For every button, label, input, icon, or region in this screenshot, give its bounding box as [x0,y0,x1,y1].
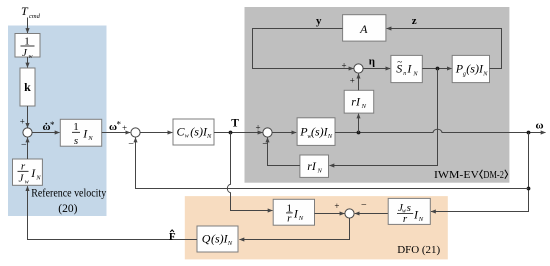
wire 1/r to junction S5 [315,213,345,215]
svg-text:−: − [21,140,27,151]
wire S1 to 1/s block [32,132,59,134]
block Sn tilde IN [391,55,422,82]
svg-text:N: N [317,168,323,175]
svg-text:w: w [29,54,33,60]
svg-text:k: k [24,80,31,94]
svg-text:N: N [87,135,93,142]
svg-text:N: N [412,70,418,77]
svg-text:+: + [350,76,355,86]
wire rIN lower to S3 [268,138,300,166]
wire Q output Fhat to r/Jw block [28,186,198,239]
svg-text:+: + [20,117,25,127]
wire y path A to S4 [253,29,354,69]
svg-text:N: N [482,70,488,77]
block Pg(s)IN [452,55,489,82]
svg-text:1: 1 [73,121,79,133]
summing junction S3 [263,128,272,137]
wire omega feedback long line to S2 [136,138,529,189]
node dot Sn output [436,67,440,71]
svg-text:Q: Q [202,231,211,245]
label T_cmd [21,4,41,20]
svg-text:+: + [256,123,261,133]
svg-text:r: r [403,213,408,225]
block Q(s)IN [197,226,238,252]
svg-text:~: ~ [397,57,402,67]
label IWM-EV DM-2 [434,169,508,181]
wire Sn node down to rIN lower [330,69,438,166]
wire r/Jw to S1 [27,138,29,159]
block r/Jw IN [13,159,43,185]
summing junction S5 [345,209,354,218]
region: Reference velocity (blue) [8,26,107,217]
wire Sn to Pg through node [422,68,451,70]
wire Jws/r to S5 [355,213,388,215]
svg-text:z: z [412,15,417,27]
svg-text:cmd: cmd [29,13,41,20]
block rIN lower [300,155,329,177]
svg-text:w: w [185,134,189,140]
wire z path Pg to A [387,29,502,69]
svg-text:N: N [35,174,41,181]
svg-text:+: + [122,123,127,133]
svg-text:+: + [334,201,339,211]
block Pw(s)IN [297,118,335,146]
wire k to junction S1 [27,106,29,128]
wire 1/Jw to k [27,57,29,68]
svg-text:N: N [298,215,304,222]
wire S5 down to Q block [240,218,350,239]
node dot omega branch [527,131,531,135]
svg-text:rI: rI [307,159,317,173]
block A [343,15,386,41]
svg-text:N: N [418,216,424,223]
wire Tcmd to 1/Jw [27,18,29,34]
svg-text:y: y [316,15,322,27]
svg-text:N: N [206,133,212,140]
svg-text:n: n [403,71,406,77]
wire omega feedback down right side to Jws/r [431,133,529,212]
svg-text:r: r [21,160,26,172]
wire node to rIN upper [358,114,360,133]
svg-text:*: * [50,120,55,130]
wire Cw to junction S3 through node T [214,132,262,134]
wire S3 to Pw block [272,132,296,134]
node dot on Pw output [357,131,361,135]
block k [20,68,35,106]
block 1/r IN [273,199,314,225]
node T dot [229,131,233,135]
block 1/s IN [60,119,101,147]
summing junction S1 [23,128,32,137]
wire rIN upper to junction S4 [358,74,360,91]
region: DFO (orange) [185,196,448,259]
svg-text:w: w [25,179,29,185]
svg-text:A: A [359,22,368,36]
svg-text:N: N [327,133,333,140]
block 1/Jw [15,34,40,61]
svg-text:(s)I: (s)I [311,125,329,139]
svg-text:ω: ω [536,120,544,132]
svg-text:T: T [231,118,239,130]
wire Pw output to omega with hop over vertical line [335,129,546,132]
svg-text:s: s [407,202,411,214]
block Jws/r IN [388,198,430,225]
wire 1/s to junction S2 [102,132,131,134]
svg-text:rI: rI [351,95,361,109]
summing junction S2 [131,128,140,137]
label omega-dot-star [43,120,56,133]
svg-text:T: T [21,4,29,18]
svg-text:−: − [128,139,134,150]
svg-text:Reference velocity: Reference velocity [31,186,106,200]
svg-text:(20): (20) [58,203,77,215]
svg-text:r: r [287,212,292,224]
block rIN upper [344,90,374,113]
block Cw(s)IN [173,119,214,145]
wire S2 to Cw block [140,132,172,134]
summing junction S4 [354,64,363,73]
svg-text:1: 1 [24,35,30,47]
svg-text:(s)I: (s)I [190,124,208,138]
svg-text:F: F [169,231,176,243]
svg-text:(s)I: (s)I [211,231,229,245]
svg-text:−: − [361,200,367,211]
svg-text:(s)I: (s)I [466,62,484,76]
svg-text:N: N [361,103,367,110]
svg-text:DFO (21): DFO (21) [397,244,440,256]
svg-text:IWM-EV: IWM-EV [434,169,479,181]
svg-text:*: * [117,119,122,129]
node dot feedback split [527,187,531,191]
svg-text:N: N [227,240,233,247]
svg-text:s: s [74,135,78,147]
svg-text:η: η [369,56,375,68]
label omega-star [109,119,122,133]
wire S4 to Sn block [363,68,390,70]
region: IWM-EV plant (gray) [245,7,510,183]
wire T node down with hop to 1/r block [227,133,272,211]
label F hat [169,230,176,243]
svg-text:DM-2: DM-2 [483,169,504,181]
